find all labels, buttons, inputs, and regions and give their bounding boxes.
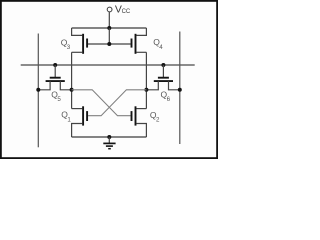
wire word line [21,64,195,66]
transistor Q4 [132,28,147,54]
wire Q2 source lead [136,124,146,138]
svg-text:CC: CC [122,9,131,15]
wire Vcc to gate line [108,28,110,44]
wire Q6 left lead to node [146,81,158,90]
transistor Q5 [38,65,71,90]
svg-text:2: 2 [156,117,160,124]
wire Q6 right lead to bit line [169,81,180,90]
Q2 gate bar [131,111,133,121]
svg-text:1: 1 [67,116,71,123]
border frame [1,1,217,158]
svg-text:4: 4 [159,44,163,51]
svg-text:6: 6 [167,96,171,103]
wire Q4 source lead [136,51,146,53]
Q1 gate bar [86,111,88,121]
wire Vcc stub [108,12,110,28]
ground [103,137,115,149]
transistor Q3 [72,28,88,54]
Q5 gate bar [50,77,61,79]
transistor Q2 [132,106,147,137]
Q6 gate bar [158,77,169,79]
Q2 channel bar [135,106,137,125]
wire cross-couple B to Q1 gate [88,90,146,116]
wire Q6 gate stub [162,65,164,77]
wire Q5 left lead to bit line [38,81,50,90]
svg-text:3: 3 [67,44,71,51]
Q6 channel bar [154,80,173,82]
Q5 channel bar [46,80,65,82]
wire Q1 drain lead [72,108,83,110]
node right bit line junction [178,88,182,92]
wire Q1 source lead [72,124,83,138]
wire right internal column (Q4 source to Q2 drain) [145,52,147,108]
node left internal junction A [70,88,74,92]
wire left internal column (Q3 source to Q1 drain) [71,52,73,108]
Q4 gate bar [131,39,133,48]
Vcc terminal circle [107,7,112,12]
wire Q5 right lead to node [60,81,71,90]
wire Q4 drain lead [136,28,146,35]
wire Q2 drain lead [136,108,146,110]
wire Q3 source lead [72,51,83,53]
wire bottom rail [72,136,147,138]
node word-Q6 gate junction [161,63,165,67]
node gate-line junction [107,42,111,46]
node right internal junction B [144,88,148,92]
wire top rail [72,27,147,29]
wire cross-couple A to Q2 gate [72,90,131,116]
transistor Q6 [146,65,179,90]
transistor Q1 [72,106,88,137]
wire gate line Q3-Q4 [88,43,131,45]
node ground junction [107,135,111,139]
node left bit line junction [36,88,40,92]
Q1 channel bar [82,106,84,125]
Q4 channel bar [135,34,137,54]
node word-Q5 gate junction [53,63,57,67]
Q3 gate bar [86,39,88,48]
node Vcc-rail junction [107,26,111,30]
svg-text:5: 5 [57,96,61,103]
wire Q3 drain lead [72,28,83,35]
wire left bit line [37,34,39,148]
wire right bit line [179,32,181,145]
wire Q5 gate stub [54,65,56,77]
Q3 channel bar [82,34,84,54]
